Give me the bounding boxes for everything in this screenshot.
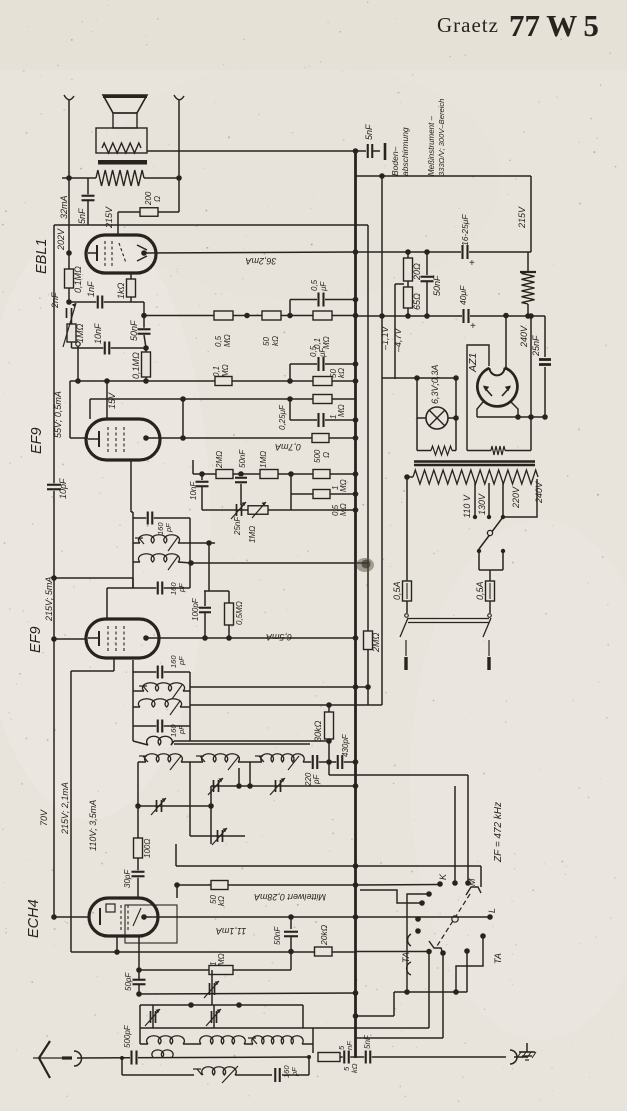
IFT2 coil 2	[133, 561, 140, 563]
svg-text:11,1mA: 11,1mA	[216, 926, 246, 936]
svg-text:Graetz: Graetz	[437, 13, 499, 37]
svg-text:36,2mA: 36,2mA	[245, 256, 276, 266]
trimmer bottom mid	[211, 1011, 213, 1023]
speaker terminal hook right	[174, 95, 184, 100]
svg-text:2nF: 2nF	[50, 292, 60, 309]
tube EF9 first envelope	[86, 419, 160, 460]
junction	[66, 250, 72, 256]
IFT2 frame	[132, 512, 134, 588]
junction	[287, 378, 293, 384]
wire y417	[477, 416, 545, 418]
wire y252 right	[356, 251, 532, 253]
junction	[120, 1056, 124, 1060]
junction	[143, 378, 149, 384]
EF9-2 anode	[143, 635, 149, 641]
resistor 5k	[318, 1053, 340, 1062]
junction	[326, 702, 332, 708]
heater line 6.3V	[382, 377, 456, 379]
junction	[238, 471, 244, 477]
output transformer box	[96, 128, 147, 153]
wire y885	[177, 884, 356, 886]
capacitor 40uF electrolytic	[462, 309, 470, 323]
svg-text:32mA: 32mA	[59, 195, 69, 219]
wire y1028	[140, 1027, 313, 1029]
wire ECH4 plate y917	[144, 916, 356, 918]
wire y225	[54, 224, 368, 226]
capacitor 50nF line D	[240, 474, 242, 505]
fuse 0.5A right	[486, 581, 495, 601]
ground symbol	[526, 1043, 528, 1052]
junction	[326, 759, 332, 765]
wire anode line y151	[147, 150, 366, 152]
resistor 30k	[328, 705, 330, 712]
svg-text:333Ω/V; 300V–Bereich: 333Ω/V; 300V–Bereich	[437, 99, 446, 176]
chassis hook	[510, 1050, 517, 1064]
wire y1038 to switch	[356, 1037, 443, 1039]
wire y951 to switch	[356, 951, 430, 953]
heater winding 6.3V	[417, 450, 431, 452]
junction	[180, 435, 186, 441]
resistor 2M line D	[216, 470, 233, 479]
junction	[176, 175, 182, 181]
wire y705	[190, 704, 382, 706]
svg-text:kΩ: kΩ	[350, 1063, 359, 1073]
svg-text:TA: TA	[493, 953, 503, 964]
wire y510	[202, 509, 356, 511]
junction	[515, 414, 521, 420]
wire pot slider to grid line	[77, 346, 79, 381]
vertical x250	[249, 762, 251, 786]
riser x183	[182, 399, 184, 438]
wire y806	[138, 805, 211, 807]
resistor 65 Ohm	[404, 287, 413, 308]
junction	[244, 313, 250, 319]
junction	[141, 313, 147, 319]
EF9-1 cathode electrode	[88, 438, 99, 440]
svg-text:kΩ: kΩ	[217, 896, 226, 906]
mains cord left	[405, 640, 407, 656]
junction	[528, 313, 534, 319]
junction	[424, 313, 430, 319]
svg-text:–1,1V: –1,1V	[380, 325, 390, 351]
field choke	[527, 252, 529, 272]
EF9-2 cathode electrode	[88, 637, 99, 639]
wire y176 to Messpunkt	[356, 175, 532, 177]
resistor 20 Ohm	[407, 252, 409, 258]
primary tap 240V	[503, 479, 537, 517]
junction	[405, 313, 411, 319]
svg-text:0,1MΩ: 0,1MΩ	[131, 352, 141, 379]
IFT3 frame	[132, 666, 134, 741]
junction bus y762	[353, 759, 359, 765]
svg-text:MΩ: MΩ	[217, 953, 226, 966]
svg-text:215V; 2,1mA: 215V; 2,1mA	[60, 782, 70, 835]
AZ1 cathode tap to filament	[467, 345, 489, 451]
svg-text:0,7mA: 0,7mA	[275, 442, 301, 452]
IFT2 capacitor 160pF bottom	[133, 587, 190, 589]
trimmer 25nF	[236, 504, 238, 516]
wire y687	[190, 686, 368, 688]
svg-text:500: 500	[313, 449, 322, 463]
left coil rail x138	[137, 762, 139, 898]
capacitor 5nF antenna left	[340, 1056, 356, 1058]
svg-text:0,5: 0,5	[310, 279, 319, 291]
svg-text:abschirmung: abschirmung	[400, 127, 410, 176]
antenna line y1057	[77, 1057, 309, 1058]
svg-text:AZ1: AZ1	[467, 353, 479, 373]
svg-text:MΩ: MΩ	[322, 336, 331, 349]
capacitor 50nF (screen)	[426, 252, 428, 275]
EBL1 grid electrode	[88, 252, 97, 254]
osc coil 2	[190, 761, 203, 763]
svg-text:50nF: 50nF	[129, 320, 139, 341]
junction	[353, 297, 359, 303]
svg-text:25nF: 25nF	[233, 516, 242, 536]
svg-text:50nF: 50nF	[238, 449, 247, 468]
variable capacitor 2nF tone	[66, 308, 68, 318]
capacitor 500pF	[130, 1051, 138, 1065]
primary tap 110V	[474, 483, 476, 517]
contact L	[487, 914, 493, 920]
tube EF9 second envelope	[86, 619, 159, 658]
junction	[188, 560, 194, 566]
ECH4 shield box	[125, 905, 177, 943]
svg-text:kΩ: kΩ	[337, 368, 346, 378]
wire EF9-1 cathode down	[130, 460, 132, 512]
trimmer row2	[217, 830, 219, 842]
svg-text:–4,7V: –4,7V	[393, 327, 403, 353]
svg-text:pF: pF	[177, 656, 186, 666]
svg-text:100Ω: 100Ω	[143, 839, 152, 858]
junction	[75, 378, 81, 384]
dial lamp	[416, 378, 418, 451]
junction	[326, 738, 332, 744]
TA left chain	[426, 891, 432, 897]
svg-text:0,5: 0,5	[214, 335, 223, 347]
junction	[379, 173, 385, 179]
svg-text:pF: pF	[312, 774, 321, 785]
mains switch	[406, 601, 408, 613]
wire y992	[394, 991, 467, 993]
junction	[405, 249, 411, 255]
resistor 1M line D	[260, 470, 278, 479]
IFT2 coil 1	[133, 542, 140, 544]
antenna coil	[152, 1050, 173, 1057]
svg-text:6,3V;0,3A: 6,3V;0,3A	[430, 365, 440, 404]
capacitor 100pF	[204, 591, 206, 606]
ECH4 cathode lead	[116, 936, 118, 952]
lower line y1075	[122, 1074, 194, 1076]
capacitor 5nF antenna right	[356, 1056, 507, 1058]
capacitor 10nF grid	[201, 474, 203, 480]
svg-text:215V; 5mA: 215V; 5mA	[44, 577, 54, 622]
bottom coil L2	[200, 1036, 246, 1044]
svg-text:30pF: 30pF	[123, 869, 132, 888]
IFT3 coil 1	[133, 690, 144, 692]
junction	[353, 378, 359, 384]
svg-text:10nF: 10nF	[189, 481, 198, 500]
EBL1 anode junction	[141, 250, 147, 256]
resistor 0.5M	[214, 311, 233, 320]
svg-text:MΩ: MΩ	[339, 479, 348, 492]
wire riser x309	[308, 1057, 310, 1075]
wire y885 to K	[356, 884, 441, 887]
svg-text:1MΩ: 1MΩ	[259, 451, 268, 468]
capacitor 25nF	[544, 316, 546, 357]
svg-text:50nF: 50nF	[273, 926, 282, 945]
svg-text:6,5mA: 6,5mA	[266, 632, 292, 642]
svg-text:pF: pF	[164, 523, 173, 533]
resistor 50k line B	[313, 377, 332, 386]
bottom coil L3	[252, 1036, 303, 1044]
ECH4 electrodes	[99, 908, 101, 925]
junction	[528, 414, 534, 420]
svg-text:0,1: 0,1	[212, 366, 221, 377]
capacitor 10nF	[103, 342, 111, 355]
svg-text:5nF: 5nF	[77, 208, 87, 224]
wire	[144, 177, 179, 179]
svg-text:1MΩ: 1MΩ	[75, 323, 85, 343]
EF9-2 grids	[107, 626, 109, 651]
junction	[288, 914, 294, 920]
antenna jack	[74, 1051, 82, 1066]
junction	[353, 635, 359, 641]
svg-text:EBL1: EBL1	[34, 239, 50, 274]
AZ1 plate leads	[477, 402, 483, 417]
wire	[62, 177, 96, 179]
wire grid from IFT2	[106, 588, 108, 619]
wire	[178, 100, 180, 212]
svg-text:kΩ: kΩ	[271, 336, 280, 346]
rectifier AZ1 envelope	[477, 368, 517, 407]
junction	[206, 540, 212, 546]
EBL1 internal grids	[104, 241, 106, 266]
wire y836	[190, 835, 245, 837]
capacitor 0.5uF upper	[290, 299, 356, 301]
wire y1005	[140, 1004, 303, 1006]
TA jack left	[419, 900, 425, 906]
output transformer primary winding	[96, 170, 144, 186]
resistor 100 Ohm	[134, 838, 143, 858]
IFT3 capacitor 160pF bottom	[133, 725, 190, 727]
resistor 1kOhm (EBL1 cathode)	[130, 273, 132, 279]
AVC rail x54	[53, 225, 55, 484]
svg-text:μF: μF	[318, 347, 327, 358]
junction	[66, 299, 72, 305]
svg-text:40μF: 40μF	[458, 285, 468, 305]
svg-text:202V: 202V	[56, 228, 66, 251]
AZ1 anodes	[484, 387, 492, 396]
capacitor 30pF	[132, 870, 145, 878]
svg-text:0,5MΩ: 0,5MΩ	[235, 601, 244, 625]
EF9-1 anode	[143, 435, 149, 441]
svg-text:200: 200	[144, 191, 153, 206]
mains cord right	[488, 640, 490, 656]
trimmer bottom left	[150, 1011, 152, 1023]
svg-text:1kΩ: 1kΩ	[116, 282, 126, 299]
wire y786 to switch	[454, 786, 456, 883]
capacitor 5nF (Bodenabschirmung)	[366, 144, 374, 158]
resistor 0.5M AVC	[228, 591, 230, 603]
loudspeaker magnet	[113, 113, 137, 128]
svg-text:500pF: 500pF	[123, 1024, 132, 1048]
capacitor 1nF	[96, 296, 104, 309]
wire EF9-1 anode line y438	[160, 437, 356, 439]
junction	[288, 471, 294, 477]
wire y865	[176, 865, 356, 867]
svg-text:Meßinstrument –: Meßinstrument –	[427, 115, 436, 176]
mains transformer core	[414, 460, 535, 462]
svg-text:5nF: 5nF	[363, 1034, 372, 1049]
wire AVC to IFT2	[54, 577, 133, 579]
mains transformer primary	[413, 470, 538, 484]
svg-text:Mittelwert 0,28mA: Mittelwert 0,28mA	[254, 892, 326, 902]
svg-text:K: K	[438, 873, 448, 880]
capacitor 16-25uF electrolytic	[461, 245, 469, 259]
trimmer row1 right	[275, 780, 277, 792]
fuse 0.5A left	[403, 581, 412, 601]
wire y994	[139, 993, 356, 994]
contact K	[437, 881, 443, 887]
resistor 50k y885	[211, 881, 228, 890]
svg-text:MΩ: MΩ	[223, 334, 232, 347]
svg-text:15V: 15V	[107, 392, 117, 409]
svg-text:10pF: 10pF	[58, 478, 68, 499]
svg-text:430pF: 430pF	[341, 733, 350, 757]
junction	[414, 375, 420, 381]
loudspeaker cone	[103, 95, 147, 113]
trimmer row1 mid	[213, 780, 215, 792]
capacitor 0.5uF lower	[289, 364, 291, 381]
svg-text:pF: pF	[177, 583, 186, 593]
lower branch riser	[121, 1058, 123, 1075]
svg-text:EF9: EF9	[28, 626, 44, 653]
wire tap -4.7V	[395, 283, 404, 285]
svg-text:MΩ: MΩ	[337, 404, 346, 417]
rotary wafer lever	[437, 894, 470, 946]
junction	[202, 635, 208, 641]
svg-text:110 V: 110 V	[462, 494, 472, 518]
resistor 500 Ohm	[312, 434, 329, 443]
capacitor 50nF	[143, 316, 145, 329]
svg-text:μF: μF	[319, 281, 328, 292]
wire line A right of bus	[356, 315, 546, 317]
vertical wire x368	[367, 225, 369, 631]
svg-text:TA: TA	[401, 952, 411, 963]
AZ1 anode lead	[505, 316, 507, 371]
EF9-1 grids	[107, 427, 109, 452]
svg-text:50pF: 50pF	[124, 972, 133, 991]
resistor 0.1M on line A	[313, 311, 332, 320]
svg-text:100pF: 100pF	[191, 597, 200, 621]
wire line D y474	[193, 473, 356, 475]
osc coil 3	[250, 761, 262, 763]
svg-text:0,5: 0,5	[309, 345, 318, 357]
svg-text:0,5A: 0,5A	[475, 581, 485, 600]
svg-text:215V: 215V	[517, 206, 527, 229]
antenna plug pin	[62, 1056, 72, 1059]
svg-text:1MΩ: 1MΩ	[248, 526, 257, 543]
wire y591	[204, 590, 229, 592]
vertical wire x382	[381, 176, 383, 705]
osc coil 1	[138, 761, 146, 763]
resistor 50k	[262, 311, 281, 320]
svg-text:55V; 0,5mA: 55V; 0,5mA	[53, 391, 63, 438]
junction	[542, 414, 548, 420]
vertical x211	[210, 786, 212, 844]
wire y302	[69, 301, 131, 303]
capacitor 220pF	[308, 761, 356, 763]
resistor 1M feedback	[139, 969, 291, 971]
wire y775	[329, 774, 356, 776]
svg-text:2MΩ: 2MΩ	[371, 632, 381, 653]
wire 215V vertical right	[530, 176, 532, 252]
capacitor 430pF	[336, 755, 344, 769]
voice-coil resistor	[102, 143, 141, 153]
primary tap 130V	[488, 483, 490, 517]
wire	[131, 301, 144, 303]
junction	[353, 148, 359, 154]
svg-text:+: +	[470, 321, 476, 332]
vertical x239	[238, 768, 240, 786]
resistor 1M to bus	[313, 470, 330, 479]
resistor 0.5M y494	[290, 474, 292, 494]
wire mains left	[406, 477, 408, 581]
wire riser to 0.5uF	[289, 300, 291, 316]
svg-text:Ω: Ω	[322, 452, 331, 458]
wire 215V to EBL1 screen	[117, 212, 119, 236]
EBL1 diode plates	[137, 245, 147, 250]
junction	[143, 345, 149, 351]
contact M	[466, 887, 481, 895]
detector coil	[147, 736, 173, 745]
IFT2 capacitor 160pF top	[133, 517, 190, 519]
switch lower contacts	[426, 949, 432, 955]
tube ECH4 envelope	[89, 898, 158, 936]
svg-text:0,5A: 0,5A	[392, 581, 402, 600]
antenna	[39, 1041, 50, 1058]
svg-text:30kΩ: 30kΩ	[313, 720, 323, 742]
wire line B y381	[70, 380, 356, 382]
junction	[288, 949, 294, 955]
IFT3 coil 2	[133, 706, 140, 708]
trimmer big	[209, 983, 211, 995]
wire y952	[71, 951, 356, 953]
potentiometer 1M (tone)	[67, 324, 76, 342]
junction	[353, 249, 359, 255]
svg-text:ECH4: ECH4	[26, 899, 42, 938]
vertical x190	[189, 762, 191, 836]
capacitor 50nF ECH4	[290, 917, 292, 929]
potentiometer 1M (gain)	[248, 506, 268, 515]
junction	[287, 396, 293, 402]
svg-text:220V: 220V	[511, 486, 521, 509]
resistor 1M line C	[313, 395, 332, 404]
svg-text:77 W 5: 77 W 5	[509, 8, 599, 43]
resistor 0.1M line B	[215, 377, 232, 386]
main chassis bus	[354, 151, 357, 1058]
capacitor 10pF	[47, 483, 61, 491]
svg-text:110V; 3,5mA: 110V; 3,5mA	[88, 800, 98, 851]
junction	[287, 313, 293, 319]
wire x71 down	[70, 671, 72, 952]
svg-text:0,1MΩ: 0,1MΩ	[73, 266, 83, 293]
wire y348	[72, 347, 147, 349]
svg-text:ZF = 472 kHz: ZF = 472 kHz	[493, 802, 504, 863]
speaker terminal hook left	[64, 95, 74, 100]
wire y917 to L	[356, 916, 491, 918]
junction	[226, 635, 232, 641]
